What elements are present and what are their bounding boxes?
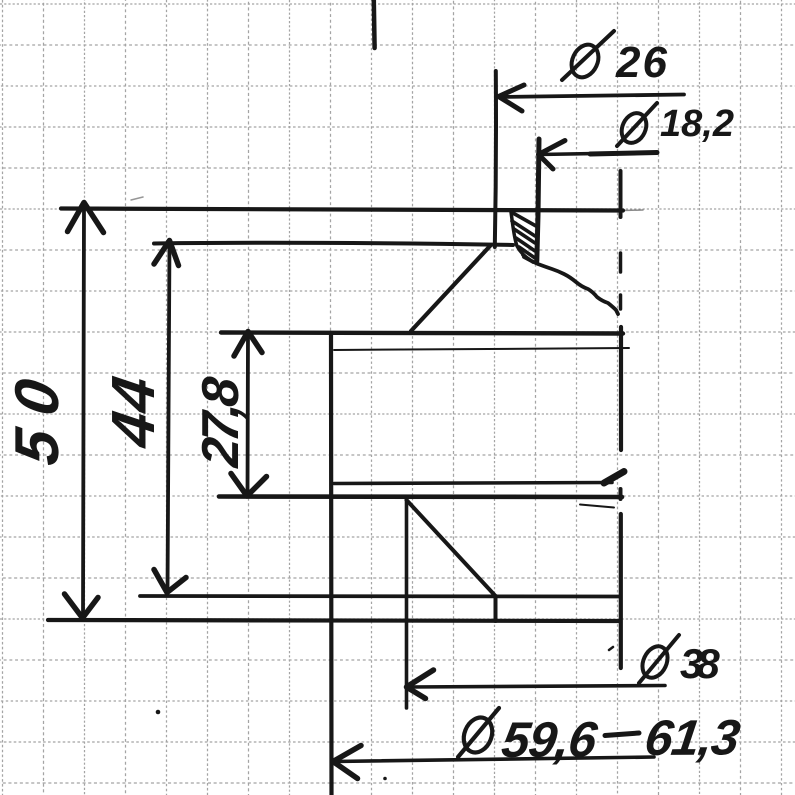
ink dot left bottom	[156, 710, 161, 715]
svg-text:26: 26	[615, 38, 669, 87]
svg-text:61,3: 61,3	[642, 710, 744, 766]
svg-text:44: 44	[99, 371, 167, 452]
hatch boundary left curve	[511, 212, 526, 257]
thin inner line y349	[334, 348, 629, 350]
svg-text:18,2: 18,2	[660, 103, 734, 145]
arrowhead 44 top	[154, 241, 179, 266]
diameter symbol Ø59,6	[459, 713, 498, 756]
outline: hub left edge x331	[329, 333, 334, 795]
dimension text 27,8 (rotated)	[192, 375, 250, 470]
hatch stroke 5	[519, 247, 535, 258]
arrowhead Ø18,2	[539, 141, 566, 170]
outline: 44-dim extension line y243	[154, 243, 513, 245]
outline: hub top edge y333 / 27,8 extension	[221, 333, 623, 334]
body right edge x620 seg4	[619, 327, 623, 450]
diameter symbol Ø26	[566, 40, 603, 81]
bore line y483	[334, 483, 612, 484]
dimension line 50 vertical	[83, 203, 84, 618]
dimension line Ø26	[500, 95, 684, 98]
dimension text 59,6	[499, 712, 602, 768]
arrowhead Ø38	[407, 670, 434, 699]
dimension line Ø18,2	[539, 153, 657, 155]
break wavy line	[524, 257, 618, 314]
arrowhead 27,8 bottom	[231, 474, 267, 497]
ink dot bottom	[383, 777, 387, 781]
outline: lower cone diagonal	[407, 500, 496, 596]
arrowhead Ø26	[499, 85, 525, 111]
svg-text:50: 50	[3, 360, 72, 469]
right dashed extension line x620 seg1	[619, 171, 623, 217]
hatch stroke 1	[512, 213, 536, 227]
hatch stroke 2	[512, 221, 535, 236]
bore line end tick	[604, 472, 624, 484]
outline: hub bottom y597 / 44-dim line	[140, 594, 620, 598]
right dashed extension line x620 seg2	[619, 253, 623, 272]
outline: step vertical x496	[494, 596, 498, 621]
arrowhead Ø59,6	[333, 746, 361, 779]
hatch stroke 6	[523, 255, 533, 262]
dimension line 27,8 vertical	[246, 332, 250, 496]
outline: cone diagonal	[411, 246, 490, 331]
range dash between 59,6 and 61,3	[605, 733, 639, 736]
extension line Ø38 x406	[405, 500, 409, 708]
dimension text 61,3	[642, 710, 744, 766]
diameter symbol Ø18,2	[617, 109, 651, 147]
arrowhead 44 bottom	[154, 570, 186, 593]
thin short line y506	[580, 505, 614, 508]
outline: base line y620 / 50-dim line	[48, 620, 620, 621]
faint smudge	[131, 197, 143, 200]
hatch stroke 4	[516, 238, 535, 251]
hatch stroke 3	[514, 229, 535, 243]
extension line Ø18,2 / hatch right edge	[537, 139, 539, 261]
outline: bore bottom y497 / 27,8 extension	[219, 494, 622, 499]
diameter symbol Ø38	[638, 642, 673, 682]
small tick near x611	[609, 647, 613, 650]
arrowhead 27,8 top	[234, 332, 262, 357]
arrowhead 50 top	[68, 203, 104, 233]
svg-text:59,6: 59,6	[499, 712, 602, 768]
dimension line Ø18,2 overdraw	[590, 153, 657, 155]
extension line Ø26	[495, 71, 496, 247]
body right edge x620 seg6	[619, 514, 623, 668]
svg-text:27,8: 27,8	[192, 375, 250, 470]
arrowhead 50 bottom	[65, 594, 99, 618]
dimension text 50 (rotated)	[3, 360, 72, 469]
dimension line Ø38	[408, 686, 665, 688]
centre tick mark top	[372, 0, 377, 48]
dimension line Ø59,6-61,3	[334, 757, 654, 762]
dimension text 44 (rotated)	[99, 371, 167, 452]
dimension line 44 vertical	[168, 241, 170, 592]
outline: flange top edge / 50-dim extension line	[61, 209, 623, 211]
right dashed extension line x620 seg3	[619, 295, 623, 309]
body right edge x620 seg5	[619, 489, 623, 499]
